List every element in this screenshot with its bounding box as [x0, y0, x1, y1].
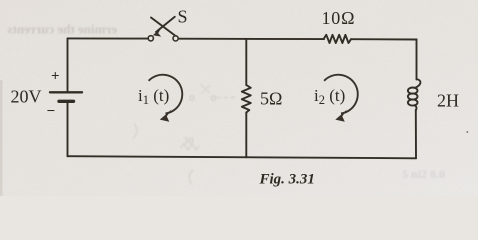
svg-text:i1 (t): i1 (t)	[138, 86, 169, 107]
arrowhead i2	[335, 110, 347, 122]
wire: right vertical below inductor	[415, 110, 417, 158]
svg-text:30: 30	[183, 135, 195, 147]
bleed-through ghost text top-left	[7, 22, 117, 37]
switch S blade line 2	[151, 18, 175, 36]
mesh current arc i1	[149, 75, 183, 114]
wire: left vertical below battery	[67, 101, 69, 156]
left edge shading	[0, 80, 3, 196]
svg-text:i2 (t): i2 (t)	[314, 86, 345, 107]
resistor 10ohm zigzag body	[324, 35, 352, 43]
faint scan line below bottom wire	[0, 164, 478, 166]
svg-text:10Ω: 10Ω	[322, 8, 356, 28]
paper speck	[466, 131, 468, 133]
svg-text:+: +	[51, 69, 60, 85]
inductor 2H coil top hook	[416, 79, 421, 88]
svg-text:−: −	[47, 104, 56, 120]
inductor 2H coil bottom hook	[415, 105, 417, 110]
wire: bottom horizontal	[68, 156, 417, 158]
svg-text:5Ω: 5Ω	[260, 89, 282, 109]
switch S left terminal circle	[148, 36, 153, 41]
inductor 2H coil loop 3	[408, 99, 418, 105]
wire: top-left segment from left corner to switch	[68, 37, 149, 39]
bleed-through ghost bottom right	[402, 167, 445, 181]
switch S blade line 1 (with arrow)	[156, 17, 175, 32]
svg-text:S: S	[178, 7, 188, 27]
wire: middle branch below 5ohm	[245, 113, 247, 158]
mesh current arc i2	[324, 75, 358, 114]
ghost marks bottom-left area	[133, 124, 199, 184]
battery source 20V positive plate (long)	[50, 91, 82, 93]
wire: left vertical down to battery	[67, 38, 69, 91]
battery source 20V negative plate (short thick)	[59, 100, 74, 103]
inductor 2H coil loop 2	[408, 93, 418, 99]
arrowhead i1	[160, 110, 172, 122]
inductor 2H coil loop 1	[408, 88, 418, 94]
wire: top-middle segment from switch to 10ohm resistor	[178, 38, 324, 40]
switch S right terminal circle	[173, 36, 178, 41]
switch S blade arrowhead	[153, 28, 162, 37]
svg-text:ermine the currents: ermine the currents	[7, 22, 117, 37]
ghost switch marks middle	[190, 84, 238, 100]
svg-text:20V: 20V	[11, 87, 42, 107]
svg-text:5 ni2 8.0: 5 ni2 8.0	[402, 167, 445, 181]
wire: right vertical above inductor	[416, 39, 418, 79]
main circuit ink	[50, 17, 420, 159]
svg-text:2H: 2H	[437, 91, 459, 111]
svg-text:Fig. 3.31: Fig. 3.31	[259, 172, 315, 188]
wire: top-right segment from resistor to right corner	[351, 38, 417, 40]
wire: middle branch above 5ohm	[245, 39, 247, 85]
resistor 5ohm zigzag body	[242, 85, 251, 113]
